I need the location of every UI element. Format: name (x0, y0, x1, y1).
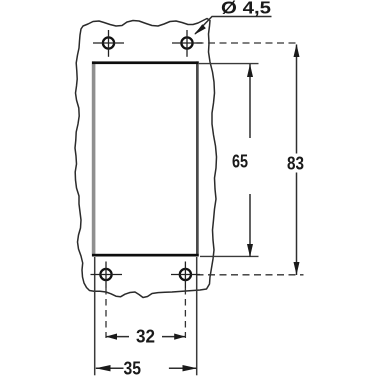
extension line 35 left (94, 257, 96, 375)
dimension line 32 (106, 334, 186, 340)
leader line for hole diameter (194, 17, 271, 35)
label 83 (287, 154, 304, 174)
centerline dashed top (hole row to 83 dim) (197, 42, 301, 44)
dimension line 65 (247, 64, 253, 257)
cutout bottom edge (92, 254, 199, 257)
mounting hole top-left (93, 30, 124, 57)
cutout top edge (92, 61, 199, 64)
extension line 65 top (199, 63, 259, 65)
label 65 (232, 152, 248, 172)
svg-text:65: 65 (232, 152, 248, 172)
svg-text:32: 32 (136, 327, 155, 347)
cutout left edge (grey) (92, 61, 96, 256)
panel torn-edge outline (75, 19, 217, 298)
svg-text:83: 83 (287, 154, 304, 174)
centerline dashed bottom-left hole down (105, 288, 107, 338)
mounting hole bottom-right (171, 262, 200, 289)
extension line 35 right (196, 257, 198, 375)
label 32 (136, 327, 155, 347)
svg-text:Ø 4,5: Ø 4,5 (221, 0, 271, 18)
label 35 (124, 359, 142, 379)
svg-text:35: 35 (124, 359, 142, 379)
centerline dashed bottom (hole row to 83 dim) (197, 274, 304, 276)
extension line 65 bottom (200, 255, 259, 257)
dimension line 35 (96, 365, 198, 371)
mounting hole bottom-left (91, 262, 123, 289)
label diameter 4,5 (221, 0, 271, 18)
centerline dashed bottom-right hole down (184, 288, 186, 338)
cutout right edge (196, 61, 199, 256)
mounting hole top-right (172, 30, 202, 57)
dimension line 83 (294, 44, 300, 275)
